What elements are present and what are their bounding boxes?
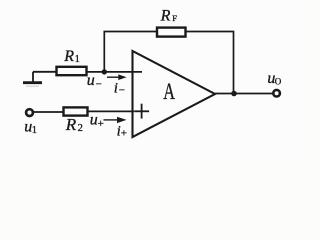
resistor R1 [57,67,87,75]
svg-text:2: 2 [78,123,83,134]
svg-text:+: + [121,128,127,140]
label i+ [117,124,127,140]
output wire [215,93,273,95]
wire [88,110,135,112]
ground [23,72,42,86]
svg-text:u: u [90,112,98,129]
resistor R2 [64,107,88,115]
svg-text:i: i [114,81,118,97]
current arrow i- [107,74,127,80]
svg-text:R: R [63,48,74,65]
svg-text:R: R [160,7,171,24]
label u1 [24,118,37,135]
op-amp U1 [133,51,216,137]
svg-text:A: A [163,79,175,105]
label R1 [63,48,80,65]
wire [186,32,234,94]
svg-text:O: O [275,77,282,87]
svg-text:−: − [96,79,102,91]
node output junction [231,91,237,97]
svg-text:u: u [87,72,95,89]
label uO [267,70,281,87]
label u- [87,72,102,91]
svg-text:F: F [172,13,177,23]
wire [33,111,63,113]
node inverting input junction [102,69,107,74]
label RF [160,7,178,24]
svg-text:−: − [119,85,125,97]
svg-text:+: + [98,118,104,130]
label R2 [65,115,83,134]
svg-text:R: R [65,115,77,134]
svg-text:1: 1 [32,125,37,136]
svg-text:1: 1 [75,54,80,65]
resistor RF [157,28,186,37]
wire [104,32,157,72]
input terminal [26,109,33,116]
label i- [114,81,125,97]
wire [33,71,57,73]
label u+ [90,112,104,130]
plus input marker [134,104,149,119]
current arrow i+ [104,117,127,123]
output terminal [273,90,280,97]
wire [87,71,143,73]
